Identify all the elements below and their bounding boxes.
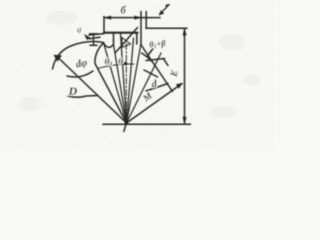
- f leader serif: [166, 4, 169, 7]
- upper land line A: [89, 34, 104, 35]
- vertex dot: [125, 121, 129, 125]
- big relief arc left: [53, 42, 104, 70]
- fan line right: [127, 53, 162, 123]
- fan line inner right: [127, 38, 134, 123]
- fan line to tooth right edge: [127, 45, 141, 124]
- D underline leader: [68, 96, 98, 98]
- d underline leader: [146, 84, 168, 92]
- E arrow down: [183, 117, 186, 124]
- d angle arc: [144, 70, 158, 77]
- M arrowhead: [176, 83, 182, 88]
- fan line to left tooth corner: [104, 43, 127, 123]
- tooth top thick: [104, 32, 138, 34]
- fan line inner left: [121, 34, 127, 124]
- arrow b left: [105, 16, 112, 19]
- background blotches: [18, 11, 262, 118]
- relief line R1: [141, 45, 173, 92]
- scan grain: [0, 0, 1, 1]
- t leader arrowhead: [84, 34, 90, 39]
- tooth left edge: [113, 33, 115, 45]
- E dimension vertical line: [184, 28, 186, 124]
- theta1+beta underline: [146, 59, 165, 61]
- left tooth flank curve to vertex: [95, 43, 127, 123]
- fan line tooth left edge: [114, 45, 127, 124]
- M measuring line: [127, 84, 183, 124]
- gamma angle triangle: [122, 38, 131, 48]
- theta2 subscript square: [124, 62, 127, 65]
- underline tick: [164, 59, 169, 66]
- extension line double 2: [145, 12, 147, 29]
- center line: [125, 44, 127, 124]
- dimension line b: [104, 17, 146, 19]
- fan line D: [58, 58, 127, 124]
- rake face diagonal: [116, 28, 138, 53]
- theta dimension arc: [99, 64, 135, 68]
- theta1+beta angle arc: [142, 53, 153, 62]
- E arrow up: [183, 29, 186, 36]
- gullet curve: [104, 43, 114, 48]
- top right horizontal line: [146, 27, 187, 29]
- t dimension I-beam vertical: [93, 34, 95, 46]
- t dimension bottom cap: [90, 44, 97, 46]
- arrow b right: [135, 16, 142, 19]
- f leader arrowhead: [159, 11, 164, 16]
- center stub below vertex: [124, 123, 127, 132]
- second short land line A2: [90, 37, 101, 39]
- extension line left of dimension b: [103, 17, 105, 34]
- arrowhead of relief arc: [54, 55, 62, 61]
- f leader line: [160, 5, 170, 15]
- f stub line: [146, 17, 160, 19]
- t dimension top cap: [90, 33, 98, 35]
- baseline: [103, 123, 191, 125]
- extension line double 1: [140, 12, 142, 46]
- theta1+beta leader vertical: [148, 49, 154, 57]
- tooth right edge: [136, 33, 138, 44]
- d-phi angle arc: [67, 71, 93, 77]
